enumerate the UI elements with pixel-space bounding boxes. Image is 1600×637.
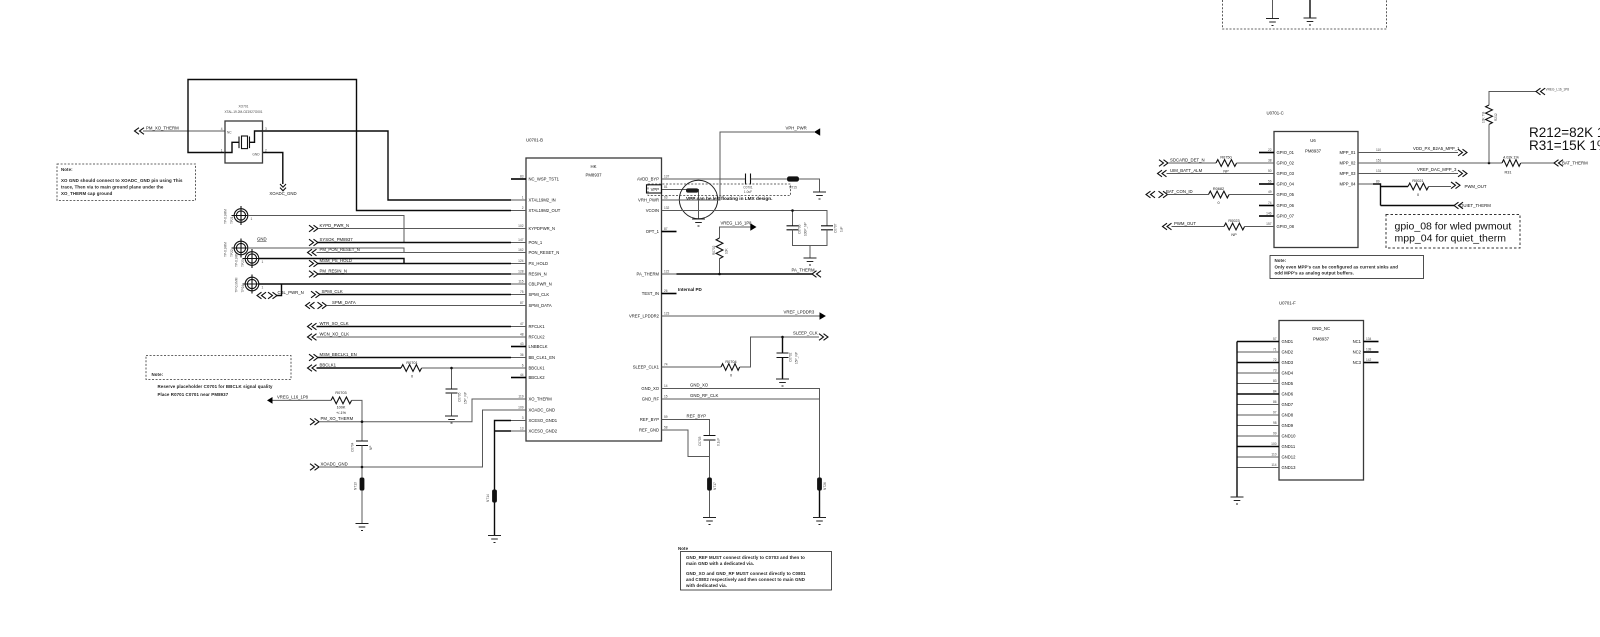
wire BBCLK1 cap branch bbox=[451, 368, 453, 389]
svg-text:GND11: GND11 bbox=[1282, 444, 1296, 449]
node SYSOK_PM8937 input arrow bbox=[309, 237, 353, 246]
svg-text:15: 15 bbox=[664, 395, 668, 399]
wire TP22 to PON_RESET_N net bbox=[248, 248, 404, 253]
pin 59 REF_BYP bbox=[640, 415, 677, 422]
svg-text:63: 63 bbox=[664, 196, 668, 200]
capacitor C0704 bbox=[351, 441, 374, 452]
svg-text:REF_BYP: REF_BYP bbox=[687, 414, 707, 419]
svg-text:GND6: GND6 bbox=[1282, 392, 1294, 397]
wire WTR_XO_CLK to RFCLK1 bbox=[317, 326, 512, 328]
wire KYPD_PWR_N bbox=[318, 228, 511, 230]
svg-text:SPMI_CLK: SPMI_CLK bbox=[529, 292, 550, 297]
svg-text:89: 89 bbox=[1376, 180, 1380, 184]
pin 123 VREF_LPDDR2 bbox=[629, 312, 677, 319]
node UIM_BATT_ALM arrow bbox=[1158, 168, 1203, 177]
svg-text:72: 72 bbox=[1273, 358, 1277, 362]
node BAT_THERM output arrow bbox=[1554, 160, 1588, 167]
svg-text:124: 124 bbox=[518, 259, 524, 263]
svg-text:100: 100 bbox=[1271, 442, 1277, 446]
svg-text:R0682: R0682 bbox=[1213, 187, 1224, 191]
svg-text:TP24: TP24 bbox=[241, 285, 245, 293]
svg-text:VREF_LPDDR3: VREF_LPDDR3 bbox=[784, 310, 815, 315]
svg-text:MPP_01: MPP_01 bbox=[1339, 150, 1356, 155]
wire C0703 to NT17 bbox=[709, 440, 711, 478]
svg-text:26: 26 bbox=[664, 289, 668, 293]
net-tie NT17 bbox=[707, 478, 717, 491]
wire C0702 to ground bbox=[782, 358, 784, 379]
svg-text:71: 71 bbox=[1273, 348, 1277, 352]
svg-text:VREG_L16_1P8: VREG_L16_1P8 bbox=[277, 395, 309, 400]
pin 63 VRH_PWR bbox=[638, 196, 676, 203]
svg-text:1uF: 1uF bbox=[840, 226, 844, 232]
pin 6 BBCLK1 bbox=[511, 364, 545, 371]
svg-text:C0702: C0702 bbox=[789, 352, 793, 362]
svg-text:C0703: C0703 bbox=[698, 436, 702, 446]
svg-text:BB_CLK1_EN: BB_CLK1_EN bbox=[529, 355, 556, 360]
svg-text:C0701: C0701 bbox=[743, 186, 753, 190]
svg-text:134: 134 bbox=[1366, 337, 1372, 341]
node PM_XO_THERM input arrow bbox=[135, 126, 180, 135]
pin 83 NC_WSP_TST1 bbox=[511, 175, 560, 182]
svg-text:U6: U6 bbox=[1310, 138, 1316, 143]
dashed box top right (cut off) bbox=[1223, 0, 1387, 29]
node VREG_L16_1P8 power arrow (R0702) bbox=[721, 221, 757, 231]
wire REF_GND joins C0703 bbox=[677, 430, 710, 457]
svg-text:PWM_OUT: PWM_OUT bbox=[1174, 221, 1196, 226]
wire TP23 to PS_HOLD net bbox=[259, 259, 404, 264]
wire R0703 to XO_THERM node bbox=[352, 400, 362, 440]
svg-text:Note:: Note: bbox=[61, 167, 73, 172]
node MSM_PS_HOLD input arrow bbox=[309, 258, 352, 267]
pin 119 XO_THERM bbox=[511, 395, 552, 402]
svg-text:2: 2 bbox=[522, 206, 524, 210]
svg-text:49: 49 bbox=[1268, 190, 1272, 194]
svg-text:4.02k 1%: 4.02k 1% bbox=[1503, 156, 1519, 160]
svg-text:100K: 100K bbox=[337, 406, 346, 410]
svg-text:REF_BYP: REF_BYP bbox=[640, 417, 659, 422]
wire NT14 to ground bbox=[494, 503, 496, 536]
wire TP21 to PON_1 net bbox=[248, 216, 404, 243]
svg-text:110: 110 bbox=[1271, 453, 1276, 457]
pin 73 GND4 bbox=[1237, 369, 1294, 376]
svg-text:Note:: Note: bbox=[152, 372, 164, 377]
svg-text:XTAL19M2_IN: XTAL19M2_IN bbox=[529, 198, 556, 203]
svg-text:XO GND should connect to XOADC: XO GND should connect to XOADC_GND pin u… bbox=[61, 178, 183, 183]
svg-text:PM_XO_THERM: PM_XO_THERM bbox=[321, 416, 354, 421]
svg-text:RESIN_N: RESIN_N bbox=[529, 272, 547, 277]
op-amp U0701-F PM8937 GND/NC block bbox=[1279, 301, 1364, 481]
svg-text:GPIO_01: GPIO_01 bbox=[1277, 150, 1295, 155]
svg-text:GND_REF MUST connect directly: GND_REF MUST connect directly to C0703 a… bbox=[686, 555, 805, 560]
node VPH_PWR power arrow bbox=[786, 126, 821, 136]
resistor R0701 bbox=[401, 361, 422, 379]
svg-text:GPIO_04: GPIO_04 bbox=[1277, 182, 1295, 187]
wire PM_PON_RESET_N bbox=[317, 252, 512, 254]
svg-text:TP23: TP23 bbox=[241, 259, 245, 267]
pin 157 GPIO_08 bbox=[1259, 222, 1295, 229]
pin 26 TEST_IN bbox=[642, 289, 677, 296]
pin 44 BBCLK2 bbox=[511, 373, 545, 380]
svg-text:KYPD_PWR_N: KYPD_PWR_N bbox=[320, 223, 350, 228]
pin 142 NC3 bbox=[1353, 358, 1379, 365]
pin 13 XCESO_GND2 bbox=[511, 427, 558, 434]
pin 47 RFCLK1 bbox=[511, 322, 545, 329]
svg-text:VREF_LPDDR2: VREF_LPDDR2 bbox=[629, 314, 660, 319]
svg-text:BBCLK1: BBCLK1 bbox=[529, 366, 546, 371]
svg-text:VRH_PWR: VRH_PWR bbox=[638, 198, 659, 203]
svg-text:XTAL-19.2M-OZ1927O001: XTAL-19.2M-OZ1927O001 bbox=[224, 110, 262, 114]
pin 138 NC2 bbox=[1353, 348, 1379, 355]
svg-text:SPMI_DATA: SPMI_DATA bbox=[529, 303, 552, 308]
node WCN_XO_CLK arrow bbox=[308, 331, 350, 340]
ground XOADC_GND (chevron style) bbox=[269, 184, 296, 196]
wire PA_THERM bbox=[677, 273, 813, 275]
resistor R0021 bbox=[1408, 179, 1429, 197]
wire R0704 to SLEEP_CLK arrow bbox=[740, 337, 819, 367]
svg-text:MPP_04: MPP_04 bbox=[1339, 182, 1356, 187]
svg-text:R212: R212 bbox=[1494, 113, 1498, 121]
svg-text:6: 6 bbox=[522, 364, 524, 368]
wire AVDD_BYP to C0701 bbox=[677, 178, 746, 180]
pin 134 NC1 bbox=[1353, 337, 1379, 344]
svg-text:44: 44 bbox=[520, 373, 524, 377]
node VDD_PX_B2A5_MPP_1 output arrow bbox=[1413, 146, 1467, 156]
wire PWM_OUT to R0023 bbox=[1172, 226, 1225, 228]
wire SYSOK_PM8937 to PON_1 bbox=[318, 242, 511, 244]
wire VREG_L16_1P8 to R0703 bbox=[273, 399, 332, 401]
svg-text:GND1: GND1 bbox=[1282, 339, 1294, 344]
svg-text:0: 0 bbox=[730, 374, 732, 378]
ground (NT13) bbox=[356, 524, 369, 531]
pin 132 VCOIN bbox=[646, 206, 677, 213]
wire C0705 to ground bbox=[451, 393, 453, 416]
svg-text:Only even MPP's can be configu: Only even MPP's can be configured as cur… bbox=[1275, 265, 1399, 270]
wire C0701 to NT15 bbox=[751, 178, 788, 180]
pin 14 GND_XO bbox=[641, 384, 676, 391]
svg-text:146: 146 bbox=[1266, 212, 1272, 216]
svg-text:XCESO_GND1: XCESO_GND1 bbox=[529, 418, 558, 423]
pin 87 OPT_1 bbox=[646, 227, 677, 234]
node SDCARD_DET_N input arrow bbox=[1159, 157, 1205, 166]
resistor R0682 bbox=[1209, 187, 1230, 205]
wire QUIET_THERM branch bbox=[1381, 205, 1455, 207]
svg-text:38: 38 bbox=[1268, 159, 1272, 163]
svg-text:GPIO_08: GPIO_08 bbox=[1277, 224, 1295, 229]
node SPMI_CLK input arrow bbox=[311, 289, 343, 298]
svg-text:GND13: GND13 bbox=[1282, 465, 1297, 470]
pin 122 PA_THERM bbox=[637, 270, 677, 277]
wire crystal feedback loop (pin1 to XTAL19M2_OUT) bbox=[188, 80, 511, 211]
svg-text:128: 128 bbox=[518, 270, 524, 274]
svg-text:83: 83 bbox=[1273, 379, 1277, 383]
wire GND_RF bbox=[677, 398, 820, 400]
svg-text:R31=15K 1%: R31=15K 1% bbox=[1529, 138, 1600, 153]
svg-text:WCN_XO_CLK: WCN_XO_CLK bbox=[320, 331, 350, 336]
pin 99 GND10 bbox=[1237, 432, 1296, 439]
svg-text:84: 84 bbox=[1273, 390, 1277, 394]
svg-text:138: 138 bbox=[1366, 348, 1372, 352]
node PWM_OUT input arrow bbox=[1163, 221, 1197, 230]
wire XCESO_GND1/2 to NT14 bbox=[495, 421, 512, 490]
svg-text:GND9: GND9 bbox=[1282, 423, 1294, 428]
pin 97 GND8 bbox=[1237, 411, 1294, 418]
pin 2 XTAL19M2_OUT bbox=[511, 206, 561, 213]
svg-text:PON_RESET_N: PON_RESET_N bbox=[529, 250, 560, 255]
svg-text:TP-0.9MM: TP-0.9MM bbox=[235, 277, 239, 292]
pin 86 GND7 bbox=[1237, 400, 1294, 407]
wire TP24 to CBLPWR_N pin bbox=[259, 283, 511, 285]
pin 72 GND3 bbox=[1237, 358, 1294, 365]
svg-text:CBLPWR_N: CBLPWR_N bbox=[529, 282, 552, 287]
node KYPD_PWR_N input arrow bbox=[309, 223, 349, 232]
node VREF_LPDDR3 power arrow bbox=[784, 310, 826, 320]
svg-text:122: 122 bbox=[664, 270, 670, 274]
svg-text:VREG_L16_1P8: VREG_L16_1P8 bbox=[721, 221, 753, 226]
node VREG_L16_1P8 input arrow (right) bbox=[1536, 88, 1569, 95]
pin 110 GND12 bbox=[1237, 453, 1296, 460]
svg-text:SLEEP_CLK: SLEEP_CLK bbox=[793, 331, 818, 336]
testpoint TP22 bbox=[224, 239, 251, 258]
svg-text:GND_RF: GND_RF bbox=[642, 397, 660, 402]
svg-text:43: 43 bbox=[520, 342, 524, 346]
resistor R31 bbox=[1502, 156, 1521, 175]
node QUIET_THERM output arrow bbox=[1454, 202, 1491, 209]
pin 38 GPIO_02 bbox=[1259, 159, 1295, 166]
svg-text:1: 1 bbox=[251, 217, 253, 221]
pin 56 GPIO_04 bbox=[1259, 180, 1295, 187]
svg-text:GND3: GND3 bbox=[1282, 360, 1294, 365]
svg-text:VPP: VPP bbox=[651, 187, 660, 192]
svg-text:VREG_L16_1P8: VREG_L16_1P8 bbox=[1546, 88, 1570, 92]
wire crystal pin2 to XOADC_GND symbol bbox=[263, 153, 283, 185]
capacitor C0706 bbox=[787, 222, 808, 236]
svg-text:AVDD_BYP: AVDD_BYP bbox=[637, 177, 659, 182]
net short marker on VPP bbox=[686, 188, 699, 192]
svg-text:15P_NP: 15P_NP bbox=[464, 392, 468, 404]
wire VREF_LPDDR2 bbox=[677, 315, 820, 317]
svg-text:119: 119 bbox=[518, 395, 523, 399]
pin 81 VPP bbox=[647, 185, 677, 193]
note box 3 (GND_REF note) bbox=[678, 546, 832, 590]
svg-text:+/-1%: +/-1% bbox=[336, 411, 347, 415]
svg-text:SPMI_DATA: SPMI_DATA bbox=[332, 300, 356, 305]
pin 151 MPP_02 bbox=[1339, 159, 1381, 166]
svg-text:GND2: GND2 bbox=[1282, 350, 1294, 355]
ground (top box right) bbox=[1304, 18, 1317, 25]
svg-text:GND12: GND12 bbox=[1282, 455, 1297, 460]
resistor R0023 bbox=[1224, 219, 1245, 237]
svg-text:87: 87 bbox=[664, 227, 668, 231]
svg-text:GND_XO and GND_RF MUST connect: GND_XO and GND_RF MUST connect directly … bbox=[686, 571, 806, 576]
svg-text:SPMI_CLK: SPMI_CLK bbox=[322, 289, 343, 294]
svg-text:OPT_1: OPT_1 bbox=[646, 229, 660, 234]
svg-text:3: 3 bbox=[265, 127, 267, 131]
capacitor C0705 bbox=[446, 389, 468, 404]
svg-text:C0707: C0707 bbox=[834, 223, 838, 233]
svg-text:157: 157 bbox=[1266, 222, 1272, 226]
svg-text:LNBBCLK: LNBBCLK bbox=[529, 344, 548, 349]
svg-text:HK: HK bbox=[591, 164, 597, 169]
node VREG_L16_1P8 power arrow (left) bbox=[267, 395, 309, 404]
svg-text:142: 142 bbox=[1366, 358, 1372, 362]
svg-text:13K 7%: 13K 7% bbox=[1482, 112, 1486, 123]
svg-text:XOADC_GND: XOADC_GND bbox=[529, 408, 556, 413]
net-tie NT15 bbox=[787, 176, 799, 189]
svg-text:TP-0.9MM: TP-0.9MM bbox=[224, 242, 228, 257]
svg-text:SLEEP_CLK1: SLEEP_CLK1 bbox=[633, 365, 660, 370]
svg-text:36: 36 bbox=[520, 353, 524, 357]
wire PM_XO_THERM to XO_THERM pin bbox=[319, 399, 511, 422]
wire C0704 to NT13 bbox=[361, 446, 363, 478]
pin 49 GPIO_05 bbox=[1259, 190, 1295, 197]
svg-text:VDD_PX_B2A5_MPP_1: VDD_PX_B2A5_MPP_1 bbox=[1413, 146, 1460, 151]
pin 89 MPP_04 bbox=[1339, 180, 1379, 187]
svg-text:BAT_CON_ID: BAT_CON_ID bbox=[1166, 189, 1193, 194]
node WTR_XO_CLK arrow bbox=[308, 321, 349, 330]
pin 84 GND6 bbox=[1237, 390, 1294, 397]
node BBCLK1 arrow bbox=[308, 362, 337, 371]
svg-text:NC_WSP_TST1: NC_WSP_TST1 bbox=[529, 177, 560, 182]
svg-text:TP-0.9MM: TP-0.9MM bbox=[235, 252, 239, 267]
svg-text:TP22: TP22 bbox=[230, 249, 234, 257]
svg-text:WTR_XO_CLK: WTR_XO_CLK bbox=[320, 321, 349, 326]
svg-text:CBL_PWR_N: CBL_PWR_N bbox=[278, 290, 304, 295]
svg-text:TP21: TP21 bbox=[230, 216, 234, 224]
testpoint TP24 bbox=[235, 275, 264, 294]
svg-text:GND7: GND7 bbox=[1282, 402, 1294, 407]
svg-text:MSM_PS_HOLD: MSM_PS_HOLD bbox=[320, 258, 352, 263]
wire MSM_PS_HOLD bbox=[318, 263, 511, 265]
wire VREG to R0702 bbox=[720, 227, 751, 238]
net-tie NT26 bbox=[817, 478, 827, 491]
ground (VPP) bbox=[692, 219, 705, 226]
svg-text:123: 123 bbox=[664, 312, 670, 316]
wire UIM_BATT_ALM to GPIO_03 bbox=[1167, 173, 1260, 175]
svg-text:48: 48 bbox=[520, 333, 524, 337]
svg-text:SDCARD_DET_N: SDCARD_DET_N bbox=[1170, 157, 1205, 162]
svg-text:PS_HOLD: PS_HOLD bbox=[529, 261, 549, 266]
svg-text:REF_GND: REF_GND bbox=[639, 428, 659, 433]
node PM_RESIN_N input arrow bbox=[309, 268, 347, 277]
svg-text:87: 87 bbox=[520, 301, 524, 305]
svg-text:C0706: C0706 bbox=[798, 224, 802, 234]
resistor R0703 bbox=[331, 391, 352, 415]
svg-text:GND_XO: GND_XO bbox=[690, 383, 709, 388]
svg-text:PM8937: PM8937 bbox=[1313, 337, 1330, 342]
svg-text:U0701-B: U0701-B bbox=[526, 138, 543, 143]
svg-text:15P_NP: 15P_NP bbox=[795, 352, 799, 364]
svg-text:XOADC_GND: XOADC_GND bbox=[321, 461, 348, 466]
pin 109 XOADC_GND bbox=[511, 406, 555, 413]
ground (NT17) bbox=[703, 518, 716, 525]
wire MPP_01 bbox=[1373, 152, 1458, 154]
svg-text:GND: GND bbox=[257, 237, 267, 242]
node PWM_OUT output arrow bbox=[1451, 182, 1487, 189]
svg-text:NC: NC bbox=[227, 131, 232, 135]
wire R0023 to GPIO_08 bbox=[1245, 226, 1259, 228]
pin 115 CBLPWR_N bbox=[511, 280, 552, 287]
svg-text:1: 1 bbox=[262, 286, 264, 290]
node PM_XO_THERM arrow (lower) bbox=[310, 416, 354, 425]
svg-text:BBCLK1: BBCLK1 bbox=[320, 362, 337, 367]
svg-text:GPIO_03: GPIO_03 bbox=[1277, 171, 1295, 176]
svg-text:GND_RF_CLK: GND_RF_CLK bbox=[690, 393, 719, 398]
wire GND bus bbox=[1236, 342, 1238, 497]
svg-text:1: 1 bbox=[262, 260, 264, 264]
svg-text:BBCLK2: BBCLK2 bbox=[529, 375, 546, 380]
pin 114 GND13 bbox=[1237, 463, 1296, 470]
svg-text:PA_THERM: PA_THERM bbox=[637, 272, 660, 277]
dashed note box (VPP floating) bbox=[648, 184, 791, 195]
pin 22 GPIO_01 bbox=[1259, 148, 1295, 155]
pin 137 AVDD_BYP bbox=[637, 175, 677, 182]
svg-text:151: 151 bbox=[1376, 159, 1382, 163]
svg-text:C0704: C0704 bbox=[351, 442, 355, 452]
svg-text:NP: NP bbox=[1231, 233, 1237, 237]
svg-text:75: 75 bbox=[520, 290, 524, 294]
pin 75 SPMI_CLK bbox=[511, 290, 549, 297]
svg-text:PA_THERM: PA_THERM bbox=[792, 268, 815, 273]
svg-text:NC2: NC2 bbox=[1353, 350, 1362, 355]
wire MPP_03 bbox=[1373, 173, 1458, 175]
svg-text:mpp_04 for quiet_therm: mpp_04 for quiet_therm bbox=[1395, 233, 1507, 245]
pin 110 MPP_01 bbox=[1339, 148, 1381, 155]
svg-text:50: 50 bbox=[1268, 169, 1272, 173]
svg-text:74: 74 bbox=[664, 363, 668, 367]
node BAT_CON_ID arrows bbox=[1146, 189, 1193, 198]
svg-text:47: 47 bbox=[520, 322, 524, 326]
svg-text:with dedicated via.: with dedicated via. bbox=[685, 583, 727, 588]
pin 1 XTAL19M2_IN bbox=[511, 196, 556, 203]
pin 147 PON_1 bbox=[511, 238, 543, 245]
wire VCOIN to caps bbox=[677, 211, 828, 226]
svg-text:gpio_08 for wled pwmout: gpio_08 for wled pwmout bbox=[1395, 221, 1512, 233]
svg-text:PM8937: PM8937 bbox=[1305, 149, 1322, 154]
resistor R0750 bbox=[1216, 156, 1237, 174]
pin 15 GND_RF bbox=[642, 395, 677, 402]
svg-text:57: 57 bbox=[1273, 337, 1277, 341]
pin 74 GPIO_06 bbox=[1259, 201, 1295, 208]
svg-text:13: 13 bbox=[520, 427, 524, 431]
svg-text:XO_THERM: XO_THERM bbox=[529, 397, 553, 402]
svg-text:VCOIN: VCOIN bbox=[646, 208, 659, 213]
svg-text:UIM_BATT_ALM: UIM_BATT_ALM bbox=[1170, 168, 1203, 173]
wire SLEEP_CLK1 to R0704 bbox=[677, 366, 722, 368]
wire SLEEP_CLK cap branch bbox=[782, 337, 784, 353]
node VREF_DAC_MPP_3 output arrow bbox=[1417, 167, 1467, 177]
ground (VCOIN) bbox=[804, 258, 817, 265]
pin 146 GPIO_07 bbox=[1259, 212, 1295, 219]
svg-text:R0703: R0703 bbox=[335, 391, 346, 395]
wire NT13 to ground bbox=[361, 491, 363, 524]
net-tie NT14 bbox=[486, 490, 497, 503]
svg-text:14: 14 bbox=[664, 384, 668, 388]
svg-text:59: 59 bbox=[664, 415, 668, 419]
svg-text:R0750: R0750 bbox=[1220, 156, 1231, 160]
ground (NT26) bbox=[813, 518, 826, 525]
svg-text:NT26: NT26 bbox=[823, 482, 827, 490]
wire R212 top to VREG bbox=[1489, 92, 1536, 106]
svg-text:main GND with a dedicated via.: main GND with a dedicated via. bbox=[686, 561, 754, 566]
svg-text:4: 4 bbox=[221, 127, 223, 131]
svg-text:BAT_THERM: BAT_THERM bbox=[1562, 161, 1588, 166]
ground (C0705) bbox=[445, 416, 458, 423]
svg-text:RFCLK2: RFCLK2 bbox=[529, 335, 546, 340]
svg-text:NC3: NC3 bbox=[1353, 360, 1362, 365]
svg-text:147: 147 bbox=[518, 238, 524, 242]
svg-text:Place R0701 C0701 near PM8937: Place R0701 C0701 near PM8937 bbox=[158, 392, 229, 397]
svg-text:132: 132 bbox=[664, 206, 670, 210]
